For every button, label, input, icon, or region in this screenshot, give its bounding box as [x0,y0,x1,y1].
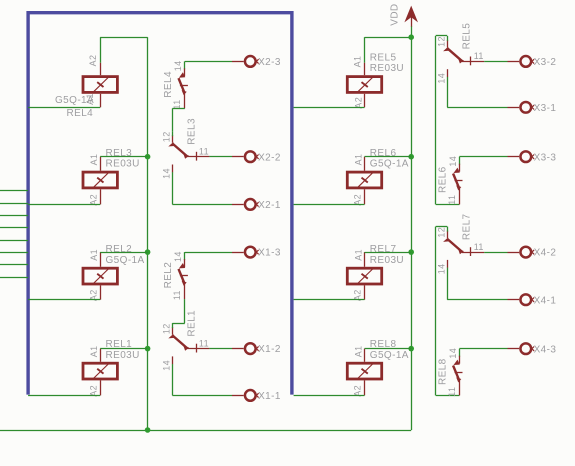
connector pad X1-1 [232,390,281,402]
relay coil REL7 value RE03U [347,244,404,301]
svg-text:A1: A1 [89,345,99,357]
svg-text:REL4: REL4 [67,108,94,119]
wire input stub 1 into bus [0,190,28,192]
svg-text:G5Q-1A: G5Q-1A [55,95,94,106]
wire REL4 contact 11 to REL3 contact 12 [172,108,184,131]
svg-text:14: 14 [448,348,458,359]
junction node E [408,34,414,40]
svg-text:A2: A2 [88,55,98,67]
svg-text:REL4: REL4 [163,71,174,98]
svg-text:RE03U: RE03U [370,63,404,74]
svg-text:X1-3: X1-3 [258,248,281,259]
svg-text:14: 14 [437,263,447,274]
relay contact REL5 (pins 12 top, 11 right, 14 bottom) [436,23,484,84]
svg-text:A1: A1 [352,56,362,68]
wire input stub 3 into bus [0,215,28,217]
svg-text:REL2: REL2 [106,244,133,255]
svg-text:REL2: REL2 [163,262,174,289]
relay contact REL7 (pins 12 top, 11 right, 14 bottom) [436,213,484,274]
svg-text:REL7: REL7 [462,213,473,240]
wire REL7 contact 14 to pad X4-1 [447,268,507,300]
svg-text:14: 14 [162,360,172,371]
connector pad X3-2 [508,56,557,68]
wire input stub 5 into bus [0,240,28,242]
connector pad X4-1 [508,294,557,306]
wire REL8 contact 14 to pad X4-3 [459,348,507,350]
wire REL2 A1 to rail [100,252,147,254]
wire REL8 A1 to VDD [365,348,412,350]
wire REL7 A2 to bus [294,299,365,301]
svg-text:12: 12 [162,131,172,142]
svg-text:11: 11 [199,146,209,156]
svg-text:G5Q-1A: G5Q-1A [370,159,409,170]
svg-text:X4-1: X4-1 [534,295,557,306]
svg-text:RE03U: RE03U [106,350,140,361]
wire REL1 contact 14 to pad X1-1 [172,364,232,395]
svg-text:REL7: REL7 [370,244,397,255]
wire REL1 A2 to bus [28,395,100,397]
junction node B [145,249,151,255]
wire REL4 contact 14 to pad X2-3 [185,61,232,63]
relay coil REL3 value RE03U [83,148,140,206]
wire REL5 A1 to VDD [365,37,412,63]
wire input stub 4 into bus [0,227,28,229]
wire REL3 A1 to rail [100,156,147,158]
wire REL7 A1 to VDD [365,252,412,254]
wire REL1 A1 to rail [100,348,147,350]
relay contact REL3 (pins 12 top, 11 right, 14 bottom) [162,118,210,179]
svg-text:11: 11 [447,195,457,205]
svg-text:11: 11 [474,242,484,252]
relay contact REL6 (pins 14 top, 11 bottom) [438,156,463,205]
connector pad X1-2 [232,343,281,355]
svg-text:X1-2: X1-2 [258,344,281,355]
wire REL6 A1 to VDD [365,156,412,158]
svg-text:14: 14 [162,168,172,179]
connector pad X2-1 [232,199,281,211]
wire REL6 A2 to bus [294,204,365,206]
wire REL3 contact 11 to pad X2-2 [209,156,232,158]
svg-text:11: 11 [172,290,182,300]
svg-text:G5Q-1A: G5Q-1A [370,350,409,361]
svg-text:A1: A1 [353,345,363,357]
svg-text:14: 14 [448,156,458,167]
wire input stub 8 into bus [0,277,28,279]
connector pad X4-2 [508,247,557,259]
junction node D [145,427,151,433]
svg-text:REL3: REL3 [106,148,133,159]
connector pad X4-3 [508,343,557,355]
svg-text:REL5: REL5 [462,23,473,50]
svg-text:11: 11 [474,51,484,61]
svg-text:A1: A1 [353,154,363,166]
svg-text:11: 11 [447,387,457,397]
relay coil REL1 value RE03U [83,339,140,397]
wire REL6 contact 14 to pad X3-3 [459,156,507,158]
relay coil REL6 value G5Q-1A [347,148,409,206]
relay contact REL1 (pins 12 top, 11 right, 14 bottom) [162,310,210,371]
svg-text:X1-1: X1-1 [258,391,281,402]
wire REL4 A2 to rail [100,37,147,63]
svg-text:11: 11 [199,338,209,348]
svg-text:12: 12 [162,323,172,334]
wire REL2 contact 14 to pad X1-3 [185,252,232,254]
svg-text:REL1: REL1 [187,310,198,337]
svg-text:X2-1: X2-1 [258,200,281,211]
relay coil REL8 value G5Q-1A [347,339,409,397]
svg-text:RE03U: RE03U [106,159,140,170]
svg-text:VDD: VDD [389,3,400,25]
svg-text:G5Q-1A: G5Q-1A [106,255,145,266]
wire REL7 contact 12 to REL8 contact 11 [436,227,460,396]
svg-text:REL6: REL6 [370,148,397,159]
junction node C [145,346,151,352]
svg-text:REL5: REL5 [370,53,397,64]
svg-text:X4-3: X4-3 [534,344,557,355]
svg-text:A1: A1 [89,249,99,261]
junction node F [408,154,414,160]
connector pad X2-2 [232,151,281,163]
svg-text:REL8: REL8 [438,358,449,385]
connector pad X3-1 [508,102,557,114]
svg-text:14: 14 [173,60,183,71]
svg-text:12: 12 [436,36,446,47]
wire REL3 A2 to bus [28,204,100,206]
wire REL2 contact 11 to REL1 contact 12 [172,299,184,323]
relay contact REL2 (pins 14 top, 11 bottom) [163,251,188,300]
relay coil REL5 value RE03U [347,53,404,109]
wire VDD vertical rail [411,26,413,430]
wire input stub 2 into bus [0,203,28,205]
wire REL8 A2 to bus [294,395,365,397]
power symbol VDD [389,3,418,26]
relay contact REL8 (pins 14 top, 11 bottom) [438,348,463,397]
wire REL5 A2 to bus [294,107,365,109]
svg-text:X4-2: X4-2 [534,248,557,259]
svg-text:12: 12 [436,227,446,238]
wire left coil feed rail [147,37,149,430]
svg-text:X2-2: X2-2 [258,152,281,163]
relay contact REL4 (pins 14 top, 11 bottom) [163,60,188,109]
relay coil REL2 value G5Q-1A [83,244,145,301]
svg-text:REL6: REL6 [438,166,449,193]
connector pad X1-3 [232,247,281,259]
svg-text:A1: A1 [353,249,363,261]
svg-text:RE03U: RE03U [370,255,404,266]
wire REL3 contact 14 to pad X2-1 [172,172,232,204]
relay coil REL4 value G5Q-1A [55,55,117,119]
junction node G [408,249,414,255]
wire bottom horizontal net [0,430,411,432]
connector pad X3-3 [508,151,557,163]
wire input stub 6 into bus [0,252,28,254]
wire REL5 contact 14 to pad X3-1 [447,77,507,108]
wire REL5 contact 12 to REL6 contact 11 [436,36,460,205]
svg-text:14: 14 [173,251,183,262]
svg-text:X3-1: X3-1 [534,103,557,114]
bus B1 (thick blue C-shaped bus) [28,13,292,395]
svg-text:14: 14 [437,73,447,84]
junction node A [145,154,151,160]
svg-text:X3-2: X3-2 [534,57,557,68]
svg-text:X3-3: X3-3 [534,152,557,163]
wire REL2 A2 to bus [28,299,100,301]
junction node H [408,346,414,352]
connector pad X2-3 [232,56,281,68]
wire input stub 7 into bus [0,264,28,266]
svg-text:REL3: REL3 [187,118,198,145]
svg-text:X2-3: X2-3 [258,57,281,68]
wire REL7 contact 11 to pad X4-2 [484,252,507,254]
wire REL5 contact 11 to pad X3-2 [484,61,507,63]
wire REL4 A1 to bus [28,107,100,109]
wire REL1 contact 11 to pad X1-2 [209,348,232,350]
svg-text:A1: A1 [89,154,99,166]
